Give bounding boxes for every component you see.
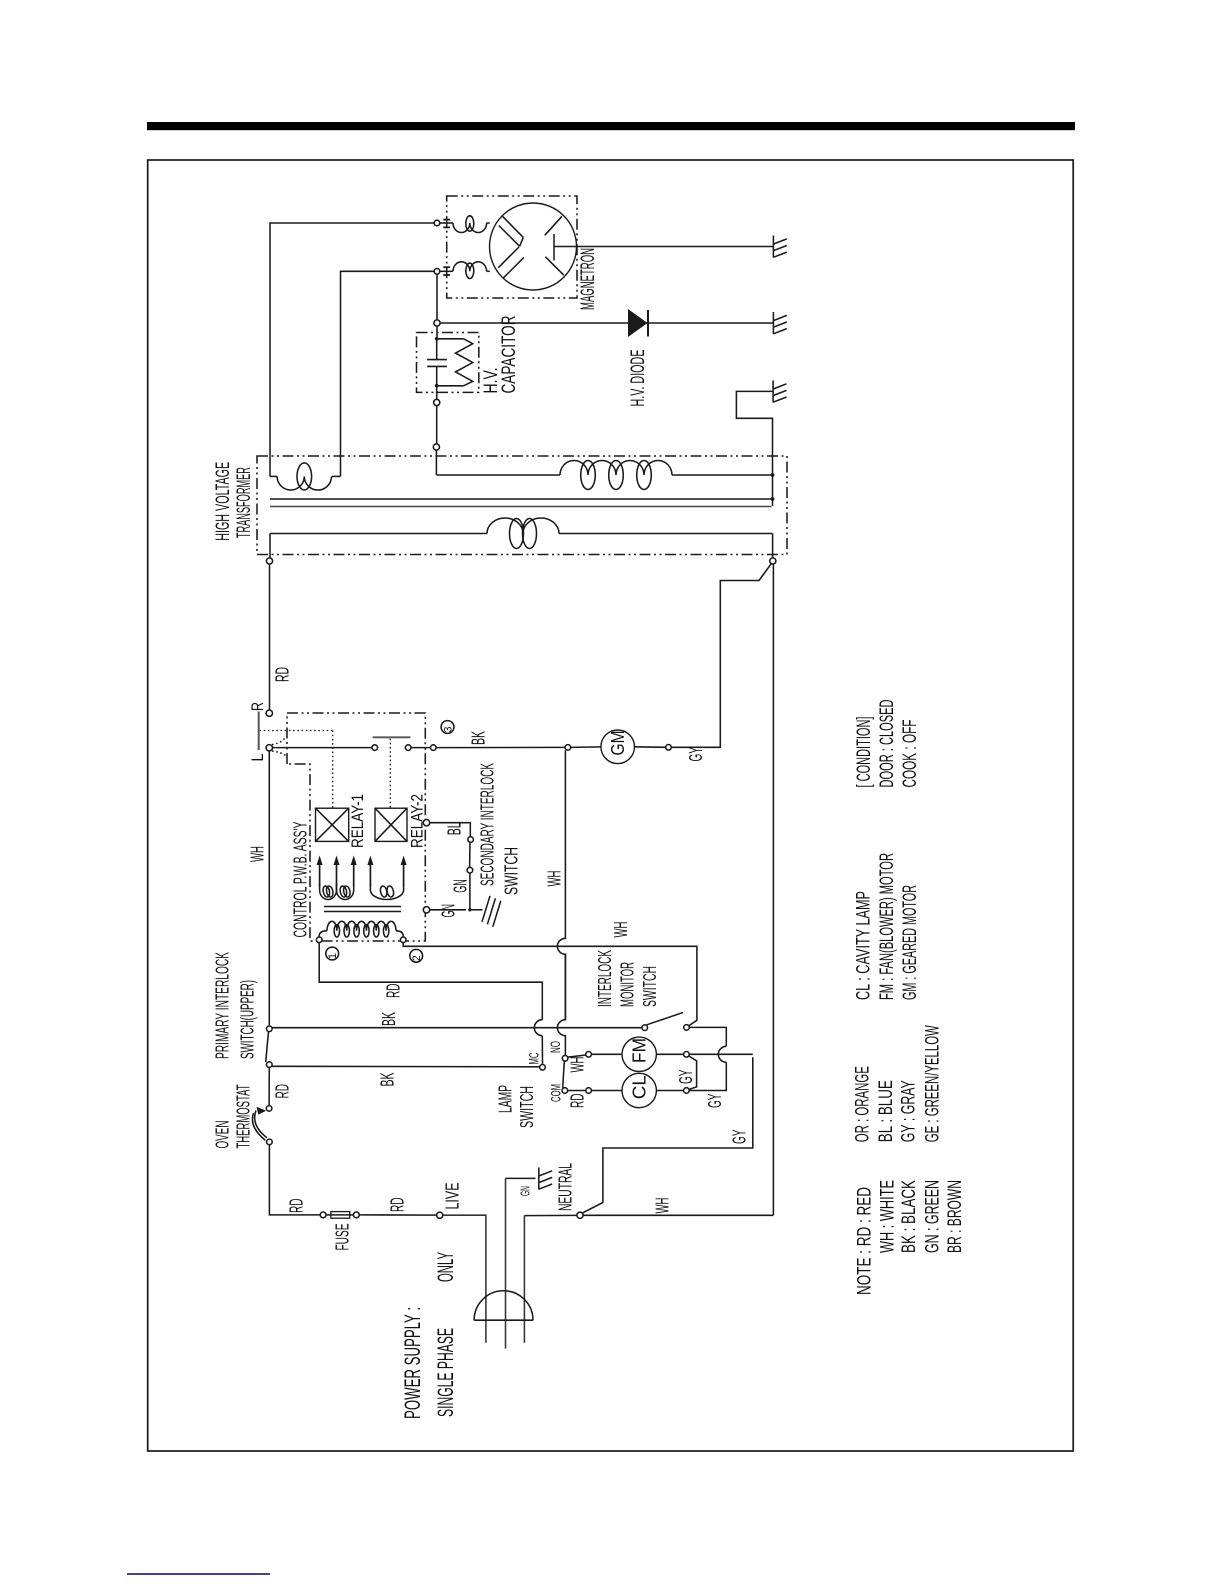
svg-text:WH: WH xyxy=(247,846,267,862)
svg-text:LIVE: LIVE xyxy=(442,1183,462,1210)
svg-text:MONITOR: MONITOR xyxy=(617,962,637,1007)
svg-text:GM: GM xyxy=(608,731,628,756)
svg-text:OVEN: OVEN xyxy=(212,1121,232,1149)
svg-text:1: 1 xyxy=(327,953,339,959)
svg-text:GN: GN xyxy=(518,1186,533,1196)
svg-text:GN: GN xyxy=(438,904,458,918)
svg-text:MC: MC xyxy=(526,1053,542,1065)
svg-text:BK: BK xyxy=(379,1012,399,1026)
svg-text:H.V. DIODE: H.V. DIODE xyxy=(628,350,649,407)
svg-text:SWITCH: SWITCH xyxy=(501,847,521,895)
svg-text:RELAY-1: RELAY-1 xyxy=(348,794,367,848)
svg-text:SINGLE PHASE: SINGLE PHASE xyxy=(433,1328,458,1417)
svg-text:BR : BROWN: BR : BROWN xyxy=(945,1180,966,1253)
svg-text:RD: RD xyxy=(272,667,292,682)
svg-text:CL: CL xyxy=(630,1075,650,1099)
svg-text:NOTE : RD : RED: NOTE : RD : RED xyxy=(855,1187,876,1295)
svg-text:GY: GY xyxy=(729,1130,749,1145)
svg-text:GM : GEARED MOTOR: GM : GEARED MOTOR xyxy=(900,885,921,1000)
svg-text:BK : BLACK: BK : BLACK xyxy=(899,1180,920,1253)
svg-text:THERMOSTAT: THERMOSTAT xyxy=(233,1084,253,1148)
svg-text:GY: GY xyxy=(676,1070,696,1085)
svg-text:DOOR : CLOSED: DOOR : CLOSED xyxy=(877,700,898,788)
svg-text:SWITCH: SWITCH xyxy=(640,966,660,1007)
svg-text:3: 3 xyxy=(442,727,454,733)
svg-text:L: L xyxy=(248,754,267,762)
svg-text:INTERLOCK: INTERLOCK xyxy=(595,950,615,1007)
svg-text:2: 2 xyxy=(411,955,423,961)
svg-text:BK: BK xyxy=(377,1073,397,1087)
svg-text:HIGH VOLTAGE: HIGH VOLTAGE xyxy=(213,462,234,541)
svg-text:CONTROL P.W.B. ASS'Y: CONTROL P.W.B. ASS'Y xyxy=(290,822,310,938)
svg-text:BL: BL xyxy=(444,822,464,835)
svg-text:RD: RD xyxy=(383,984,403,999)
svg-text:WH : WHITE: WH : WHITE xyxy=(877,1180,898,1253)
svg-text:NO: NO xyxy=(547,1041,563,1053)
svg-text:R: R xyxy=(248,702,267,711)
svg-text:GN: GN xyxy=(450,879,470,893)
svg-text:MAGNETRON: MAGNETRON xyxy=(578,248,599,310)
svg-text:WH: WH xyxy=(652,1198,672,1214)
svg-text:SWITCH(UPPER): SWITCH(UPPER) xyxy=(237,980,257,1059)
svg-text:GN : GREEN: GN : GREEN xyxy=(922,1180,943,1253)
svg-text:GE : GREEN/YELLOW: GE : GREEN/YELLOW xyxy=(922,1025,943,1142)
svg-text:LAMP: LAMP xyxy=(495,1085,515,1113)
svg-text:WH: WH xyxy=(544,871,564,887)
svg-text:GY: GY xyxy=(705,1094,725,1109)
svg-text:WH: WH xyxy=(611,922,631,938)
svg-text:RD: RD xyxy=(272,1084,292,1099)
svg-text:SWITCH: SWITCH xyxy=(517,1086,537,1128)
svg-text:CL : CAVITY LAMP: CL : CAVITY LAMP xyxy=(853,891,874,1000)
svg-text:BL : BLUE: BL : BLUE xyxy=(876,1080,897,1142)
svg-text:PRIMARY INTERLOCK: PRIMARY INTERLOCK xyxy=(212,952,232,1059)
svg-text:POWER SUPPLY :: POWER SUPPLY : xyxy=(400,1307,425,1419)
svg-text:RD: RD xyxy=(567,1094,587,1109)
svg-text:FUSE: FUSE xyxy=(332,1224,352,1251)
svg-text:COM: COM xyxy=(548,1084,564,1102)
svg-text:RD: RD xyxy=(286,1199,306,1214)
svg-text:NEUTRAL: NEUTRAL xyxy=(555,1163,575,1211)
svg-text:FM: FM xyxy=(630,1038,650,1063)
svg-text:OR : ORANGE: OR : ORANGE xyxy=(853,1066,874,1142)
svg-text:[ CONDITION]: [ CONDITION] xyxy=(854,717,875,788)
svg-text:WH: WH xyxy=(567,1057,587,1073)
svg-text:RD: RD xyxy=(387,1198,407,1213)
svg-text:BK: BK xyxy=(468,731,488,745)
svg-text:ONLY: ONLY xyxy=(433,1252,458,1282)
svg-text:CAPACITOR: CAPACITOR xyxy=(499,316,520,394)
svg-text:SECONDARY INTERLOCK: SECONDARY INTERLOCK xyxy=(477,763,497,886)
svg-text:GY: GY xyxy=(686,747,706,762)
svg-text:GY : GRAY: GY : GRAY xyxy=(898,1080,919,1142)
svg-text:TRANSFORMER: TRANSFORMER xyxy=(234,467,255,538)
svg-text:COOK : OFF: COOK : OFF xyxy=(900,720,921,788)
svg-text:FM : FAN(BLOWER) MOTOR: FM : FAN(BLOWER) MOTOR xyxy=(877,853,898,1000)
